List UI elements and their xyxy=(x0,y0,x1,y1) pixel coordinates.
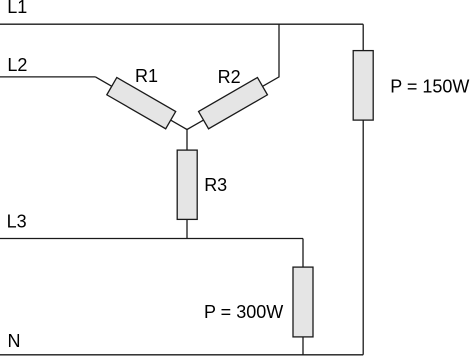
svg-text:R3: R3 xyxy=(204,175,227,195)
resistor R1 body xyxy=(107,77,176,128)
svg-text:P = 150W: P = 150W xyxy=(390,77,469,97)
svg-text:R1: R1 xyxy=(135,66,158,86)
resistor 150W body xyxy=(353,51,373,121)
wire drop from L1 to R2 xyxy=(187,24,279,129)
wire L1 xyxy=(0,23,363,25)
resistor 300W body xyxy=(293,267,313,337)
wire L3 xyxy=(0,238,303,240)
resistor R2 body xyxy=(199,77,268,128)
wire star point to L3 xyxy=(186,130,188,239)
wire from L2 to star point xyxy=(96,77,188,130)
svg-text:P = 300W: P = 300W xyxy=(204,302,283,322)
svg-text:R2: R2 xyxy=(218,67,241,87)
svg-text:L1: L1 xyxy=(7,0,27,17)
svg-text:L3: L3 xyxy=(7,212,27,232)
wire N xyxy=(0,354,363,356)
svg-text:L2: L2 xyxy=(7,55,27,75)
wire L2 xyxy=(0,76,96,78)
wire from L3 to N through lamp branch xyxy=(302,239,304,355)
resistor R3 body xyxy=(177,150,197,219)
wire right branch L1 to N xyxy=(362,24,364,355)
svg-text:N: N xyxy=(8,331,21,351)
